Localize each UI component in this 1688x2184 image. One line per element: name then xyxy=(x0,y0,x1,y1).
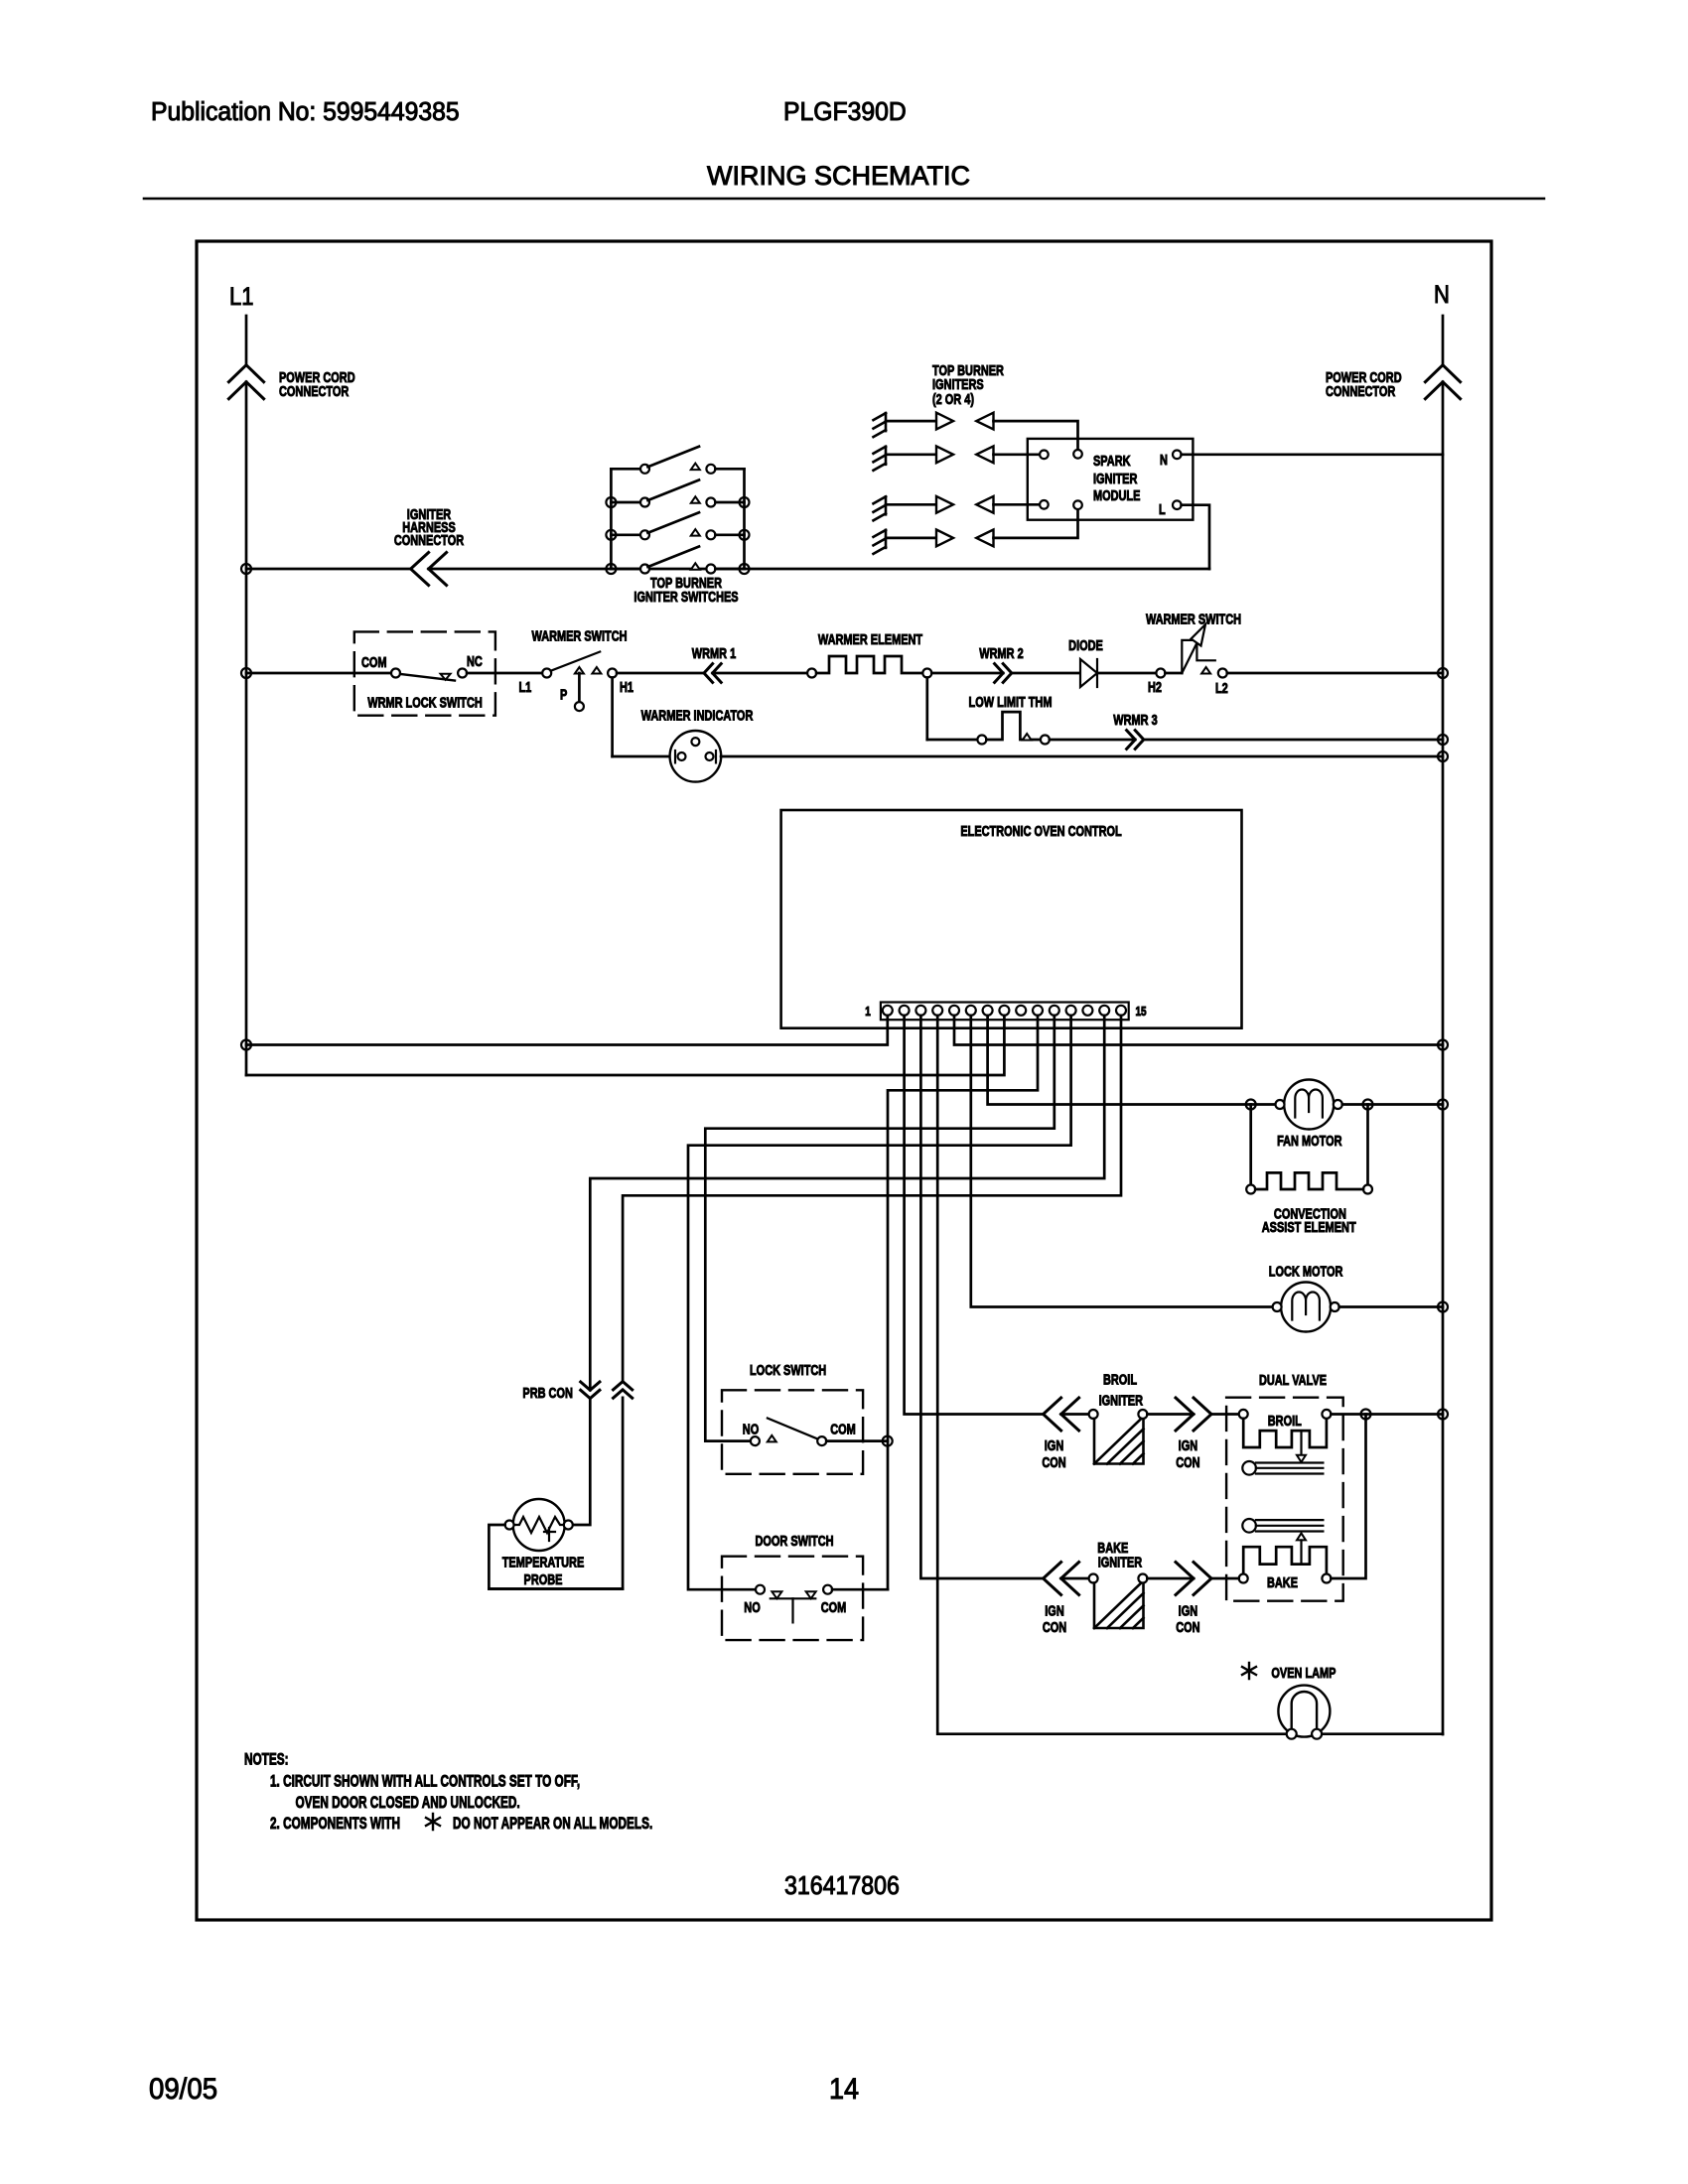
wire N bus vertical xyxy=(1442,382,1445,1734)
bake gas outlet tube xyxy=(1242,1519,1323,1533)
wire igniter 1 to module xyxy=(994,421,1078,450)
svg-text:IGNITER SWITCHES: IGNITER SWITCHES xyxy=(633,588,738,605)
wire diode to H2 xyxy=(1097,672,1156,675)
wire pin15 to probe connector xyxy=(623,1016,1121,1382)
wire module L to igniter row bus xyxy=(1182,505,1209,569)
electronic oven control box xyxy=(781,810,1242,1028)
wire igniter 2 to module xyxy=(994,453,1041,456)
svg-text:WRMR 2: WRMR 2 xyxy=(979,644,1023,661)
power cord connector N chevrons xyxy=(1425,365,1460,399)
svg-text:CON: CON xyxy=(1042,1453,1065,1470)
svg-text:CONNECTOR: CONNECTOR xyxy=(1326,382,1396,399)
wire N lead-in xyxy=(1442,316,1445,365)
label igniter harness connector xyxy=(394,505,465,548)
svg-text:P: P xyxy=(560,686,568,703)
svg-text:WARMER SWITCH: WARMER SWITCH xyxy=(1146,611,1241,627)
wire broil valve to N bus xyxy=(1331,1413,1443,1416)
connector IGN CON bake right chevrons xyxy=(1176,1563,1211,1595)
warmer switch 1 contact P xyxy=(575,667,584,674)
label broil igniter xyxy=(1099,1371,1144,1409)
svg-text:CON: CON xyxy=(1176,1453,1199,1470)
svg-text:2. COMPONENTS WITH: 2. COMPONENTS WITH xyxy=(270,1815,400,1833)
temperature probe RT1 xyxy=(505,1499,573,1551)
EOC pin circles 1-15 xyxy=(883,1006,1126,1016)
svg-text:09/05: 09/05 xyxy=(149,2073,217,2106)
broil igniter right terminal xyxy=(1138,1410,1147,1419)
convection element left terminal xyxy=(1246,1185,1255,1194)
wire element junction drop xyxy=(925,678,928,741)
wire convection right drop xyxy=(1366,1105,1369,1185)
svg-text:CONNECTOR: CONNECTOR xyxy=(279,382,350,399)
svg-text:LOCK SWITCH: LOCK SWITCH xyxy=(750,1361,826,1378)
wire H1 to WRMR1 xyxy=(617,672,704,675)
svg-text:L: L xyxy=(1159,500,1166,517)
wire igniter 3 to module xyxy=(994,503,1041,506)
power cord connector L1 chevrons xyxy=(228,365,263,399)
wire WRMR2 to diode xyxy=(1012,672,1080,675)
wire lock motor to N bus xyxy=(1339,1305,1443,1308)
svg-text:ASSIST ELEMENT: ASSIST ELEMENT xyxy=(1262,1218,1356,1235)
svg-text:WRMR 1: WRMR 1 xyxy=(692,644,736,661)
svg-text:NOTES:: NOTES: xyxy=(244,1751,289,1769)
warmer switch 1 blade xyxy=(551,652,600,671)
svg-text:DIODE: DIODE xyxy=(1068,636,1103,653)
svg-text:WARMER SWITCH: WARMER SWITCH xyxy=(531,627,627,644)
wire L2 to N bus xyxy=(1227,672,1443,675)
svg-text:15: 15 xyxy=(1135,1006,1146,1019)
junction fan row / convection right xyxy=(1363,1100,1373,1110)
svg-text:TEMPERATURE: TEMPERATURE xyxy=(502,1554,585,1570)
low limit thermostat bump xyxy=(986,712,1041,740)
label bake igniter xyxy=(1097,1539,1142,1570)
wire pin10 to switches drop xyxy=(888,1016,1038,1589)
svg-text:WRMR LOCK SWITCH: WRMR LOCK SWITCH xyxy=(367,694,483,711)
wire L1 lead-in xyxy=(245,316,248,365)
svg-text:NO: NO xyxy=(743,1421,759,1437)
wire WRMR1 to element xyxy=(713,672,807,675)
bake valve left terminal xyxy=(1239,1574,1248,1583)
top burner igniter switches (4-gang) xyxy=(606,447,749,574)
warmer switch 2 thermostat bracket xyxy=(1182,640,1215,673)
wire lock COM to pin10 drop xyxy=(826,1439,888,1442)
svg-text:LOCK MOTOR: LOCK MOTOR xyxy=(1269,1263,1343,1280)
svg-text:BROIL: BROIL xyxy=(1268,1412,1302,1429)
svg-text:(2 OR 4): (2 OR 4) xyxy=(932,390,974,407)
svg-text:COM: COM xyxy=(361,653,387,670)
top burner igniter 3 electrode+gap xyxy=(874,496,994,520)
lock switch blade xyxy=(768,1419,818,1439)
warmer switch P terminal xyxy=(575,702,584,711)
svg-text:IGN: IGN xyxy=(1179,1436,1197,1453)
convection element coil xyxy=(1255,1172,1363,1189)
wire pin1 to L1 bus xyxy=(246,1016,888,1045)
wire probe left loop xyxy=(489,1525,623,1589)
bake valve solenoid coil xyxy=(1243,1547,1327,1573)
svg-text:BAKE: BAKE xyxy=(1267,1573,1298,1590)
wire WRMR3 to N bus xyxy=(1144,739,1443,742)
connector WRMR 3 chevrons xyxy=(1127,731,1144,750)
lock switch NO contact mark xyxy=(768,1435,776,1442)
label oven lamp with asterisk xyxy=(1242,1663,1336,1681)
junction N bus / broil row xyxy=(1438,1410,1448,1420)
svg-text:FAN MOTOR: FAN MOTOR xyxy=(1277,1132,1342,1149)
wire chevron to broil igniter xyxy=(1061,1413,1089,1416)
svg-text:NC: NC xyxy=(467,652,483,669)
label power cord connector left xyxy=(279,368,355,399)
bake igniter left terminal xyxy=(1089,1574,1098,1583)
warmer indicator lamp xyxy=(670,731,722,782)
oven lamp DS1 xyxy=(1278,1686,1330,1739)
bake igniter hot surface element xyxy=(1094,1580,1144,1628)
warmer switch L2 terminal xyxy=(1218,669,1227,678)
convection element right terminal xyxy=(1363,1185,1372,1194)
warmer element left terminal xyxy=(807,669,816,678)
wire fan to N bus xyxy=(1342,1103,1443,1106)
wire door COM to pin10 drop xyxy=(832,1588,888,1591)
warmer lock switch dashed box xyxy=(354,631,495,715)
svg-text:CONNECTOR: CONNECTOR xyxy=(394,531,465,548)
wire igniter 4 to module xyxy=(994,509,1078,538)
broil gas outlet tube xyxy=(1242,1461,1323,1475)
schematic border frame xyxy=(197,241,1491,1920)
label top burner igniters xyxy=(932,361,1004,407)
svg-text:L1: L1 xyxy=(519,678,532,695)
wire pin11 to lock switch xyxy=(705,1016,1055,1441)
wire probe return loop xyxy=(489,1398,623,1589)
wire pin7 to fan row xyxy=(988,1016,1276,1105)
svg-text:MODULE: MODULE xyxy=(1093,486,1141,503)
label power cord connector right xyxy=(1326,368,1402,399)
spark module terminal circles xyxy=(1040,450,1082,509)
warmer switch L1 terminal xyxy=(542,669,551,678)
warmer element right terminal xyxy=(922,669,931,678)
label IGN CON bake right xyxy=(1176,1602,1199,1636)
wire low limit to WRMR3 xyxy=(1050,739,1135,742)
svg-text:CON: CON xyxy=(1043,1618,1066,1635)
junction N bus / indicator row xyxy=(1438,751,1448,761)
warmer element coil xyxy=(816,656,922,673)
svg-text:H1: H1 xyxy=(620,678,633,695)
broil valve actuator arrow xyxy=(1297,1431,1306,1462)
svg-text:IGNITER: IGNITER xyxy=(1099,1392,1144,1409)
svg-text:L1: L1 xyxy=(229,283,253,311)
wire P pilot lead xyxy=(578,673,581,702)
connector PRB CON pin14 chevrons xyxy=(581,1382,600,1399)
svg-text:1. CIRCUIT SHOWN WITH ALL: 1. CIRCUIT SHOWN WITH ALL CONTROLS SET T… xyxy=(270,1773,580,1791)
broil valve solenoid coil xyxy=(1243,1419,1327,1447)
wire pin2 to broil row xyxy=(905,1016,1044,1415)
bake valve right terminal xyxy=(1322,1574,1331,1583)
junction N bus / EOC pin5 bus xyxy=(1438,1040,1448,1050)
svg-text:IGNITER: IGNITER xyxy=(1098,1554,1143,1570)
broil igniter hot surface element xyxy=(1094,1417,1144,1464)
broil valve right terminal xyxy=(1322,1410,1331,1419)
wire NC to warmer switch L1 xyxy=(467,672,542,675)
svg-text:IGN: IGN xyxy=(1179,1602,1197,1619)
spark igniter module box xyxy=(1028,439,1194,520)
wire chevron to bake igniter xyxy=(1061,1577,1089,1580)
svg-text:DOOR SWITCH: DOOR SWITCH xyxy=(755,1532,833,1549)
svg-text:N: N xyxy=(1160,451,1168,468)
wire pin5 to N bus xyxy=(954,1016,1443,1045)
warmer switch 2 blade arrow xyxy=(1182,624,1205,673)
label IGN CON broil left xyxy=(1042,1436,1065,1470)
broil igniter left terminal xyxy=(1089,1410,1098,1419)
note 2 with asterisk xyxy=(270,1814,652,1834)
lock motor M2 xyxy=(1273,1283,1339,1332)
connector IGN CON broil left chevrons xyxy=(1044,1398,1079,1431)
bake valve actuator arrow xyxy=(1297,1533,1306,1564)
wire pin6 to lock motor row xyxy=(971,1016,1273,1307)
svg-text:WARMER ELEMENT: WARMER ELEMENT xyxy=(818,630,922,647)
junction broil row / bake tie xyxy=(1361,1410,1371,1420)
wire chevron to dual valve bake xyxy=(1211,1577,1239,1580)
svg-text:H2: H2 xyxy=(1148,678,1162,695)
svg-text:BROIL: BROIL xyxy=(1103,1371,1137,1388)
junction N bus / warmer row xyxy=(1438,668,1448,678)
svg-text:14: 14 xyxy=(829,2073,859,2107)
connector PRB CON pin15 chevrons xyxy=(614,1382,633,1399)
wire to low limit xyxy=(927,739,978,742)
top burner igniter 1 electrode+gap xyxy=(874,413,994,437)
svg-text:PROBE: PROBE xyxy=(524,1570,563,1587)
door switch plunger xyxy=(771,1591,816,1622)
svg-text:NO: NO xyxy=(744,1598,760,1615)
bake igniter right terminal xyxy=(1138,1574,1147,1583)
igniter harness connector chevrons xyxy=(411,553,447,586)
label temperature probe xyxy=(502,1554,585,1588)
spark module N terminal xyxy=(1160,451,1182,469)
door switch dashed box xyxy=(722,1557,863,1640)
warmer switch 1 contact H1 xyxy=(592,667,601,674)
door switch NO terminal xyxy=(756,1585,765,1594)
svg-text:COM: COM xyxy=(830,1421,856,1437)
connector WRMR 2 chevrons xyxy=(995,664,1012,683)
svg-text:DUAL VALVE: DUAL VALVE xyxy=(1259,1371,1327,1388)
label top burner igniter switches xyxy=(633,574,738,605)
wire H1 drop xyxy=(611,678,614,757)
wire H2 stub xyxy=(1165,672,1182,675)
low limit contact mark xyxy=(1023,734,1032,741)
top burner igniter 2 electrode+gap xyxy=(874,446,994,470)
junction N bus / low-limit row xyxy=(1438,735,1448,745)
svg-text:Publication No: 5995449385: Publication No: 5995449385 xyxy=(151,98,460,126)
wire pin14 to probe connector xyxy=(590,1016,1104,1391)
junction fan row / convection left xyxy=(1246,1100,1256,1110)
wrmr lock switch NC terminal xyxy=(458,669,467,678)
wire warmer row from L1 bus xyxy=(246,672,391,675)
junction N bus / lock motor row xyxy=(1438,1302,1448,1312)
svg-text:316417806: 316417806 xyxy=(784,1872,900,1901)
connector IGN CON bake left chevrons xyxy=(1044,1563,1079,1595)
junction L1 bus / warmer row xyxy=(241,668,251,678)
label convection assist element xyxy=(1262,1205,1356,1236)
svg-text:OVEN DOOR CLOSED AND UNLOC: OVEN DOOR CLOSED AND UNLOCKED. xyxy=(296,1794,520,1812)
dual valve dashed box xyxy=(1226,1398,1343,1601)
svg-text:1: 1 xyxy=(865,1006,871,1019)
label IGN CON bake left xyxy=(1043,1602,1066,1636)
wire pin4 to lamp row xyxy=(937,1016,1443,1734)
wire element to WRMR2 xyxy=(931,672,1003,675)
wire module N to N bus xyxy=(1182,453,1443,456)
low limit left terminal xyxy=(977,736,986,745)
wire convection left drop xyxy=(1249,1105,1252,1185)
svg-text:IGN: IGN xyxy=(1045,1436,1063,1453)
svg-text:CON: CON xyxy=(1176,1618,1199,1635)
top burner igniter 4 electrode+gap xyxy=(874,530,994,554)
lock switch dashed box xyxy=(722,1390,863,1474)
title underline rule xyxy=(144,198,1544,201)
junction L1 bus / EOC pin1 bus xyxy=(241,1040,251,1050)
warmer switch H1 terminal xyxy=(608,669,617,678)
wrmr lock switch COM terminal xyxy=(391,669,400,678)
svg-text:DO NOT APPEAR ON ALL MODE: DO NOT APPEAR ON ALL MODELS. xyxy=(453,1815,652,1833)
svg-text:WRMR 3: WRMR 3 xyxy=(1113,711,1157,728)
connector WRMR 1 chevrons xyxy=(704,664,721,683)
label IGN CON broil right xyxy=(1176,1436,1199,1470)
wire indicator to N bus xyxy=(721,755,1443,758)
svg-text:IGN: IGN xyxy=(1045,1602,1063,1619)
svg-text:PRB CON: PRB CON xyxy=(522,1384,572,1401)
lock switch NO terminal xyxy=(751,1436,760,1445)
wire H1 to indicator xyxy=(613,755,671,758)
door switch COM terminal xyxy=(823,1585,832,1594)
low limit right terminal xyxy=(1041,736,1050,745)
wire broil igniter to chevron xyxy=(1147,1413,1194,1416)
wrmr lock switch contact mark xyxy=(441,674,451,680)
label spark igniter module xyxy=(1093,452,1141,503)
svg-text:COM: COM xyxy=(821,1598,847,1615)
svg-text:N: N xyxy=(1434,281,1450,309)
wrmr lock switch blade xyxy=(400,674,455,681)
wire chevron to dual valve broil xyxy=(1211,1413,1239,1416)
lock switch COM terminal xyxy=(817,1436,826,1445)
junction N bus / fan motor row xyxy=(1438,1100,1448,1110)
wire bake igniter to chevron xyxy=(1147,1577,1194,1580)
wire pin3 to bake row xyxy=(920,1016,1043,1578)
wire probe connector to probe xyxy=(573,1399,591,1525)
wire L1 bus vertical xyxy=(245,382,248,1075)
svg-text:WIRING SCHEMATIC: WIRING SCHEMATIC xyxy=(707,161,970,191)
svg-text:IGNITER: IGNITER xyxy=(1093,470,1138,486)
EOC terminal strip box xyxy=(881,1003,1129,1021)
svg-text:LOW LIMIT THM: LOW LIMIT THM xyxy=(969,693,1053,710)
svg-text:PLGF390D: PLGF390D xyxy=(783,98,907,126)
wire pin12 to door switch xyxy=(688,1016,1071,1589)
wire igniter row bus left xyxy=(246,568,411,571)
svg-text:L2: L2 xyxy=(1215,679,1228,696)
wire pin8 from L1 bus xyxy=(246,1016,1004,1075)
lock COM tap circle on drop xyxy=(883,1436,893,1446)
junction L1 bus / igniter row xyxy=(241,564,251,574)
wire broil-bake tie xyxy=(1331,1415,1365,1579)
warmer switch H2 terminal xyxy=(1156,669,1165,678)
fan motor M1 xyxy=(1276,1080,1342,1130)
connector IGN CON broil right chevrons xyxy=(1176,1398,1211,1431)
wire igniter row bus right xyxy=(429,568,1209,571)
warmer switch 2 contact mark xyxy=(1201,667,1210,674)
svg-text:SPARK: SPARK xyxy=(1093,452,1131,469)
svg-text:ELECTRONIC OVEN CONTROL: ELECTRONIC OVEN CONTROL xyxy=(960,822,1121,839)
broil valve left terminal xyxy=(1239,1410,1248,1419)
diode D1 xyxy=(1080,659,1097,687)
svg-text:OVEN LAMP: OVEN LAMP xyxy=(1271,1664,1336,1681)
svg-text:WARMER INDICATOR: WARMER INDICATOR xyxy=(641,707,754,724)
spark module L terminal xyxy=(1159,500,1182,517)
